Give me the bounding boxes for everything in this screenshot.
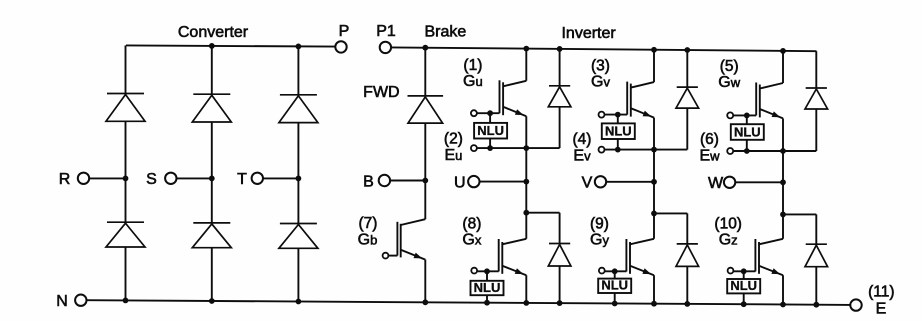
junction - node R on converter leg 1: [123, 176, 129, 182]
wire - NLU link gate to aux emitter (upper): [617, 115, 619, 150]
svg-text:Ew: Ew: [699, 148, 720, 165]
wire - mid node to lower diode: [526, 212, 559, 214]
wire - aux emitter line: [477, 147, 560, 149]
diode upper free-wheel (V phase): [686, 50, 688, 87]
diode upper free-wheel (W phase): [815, 51, 817, 88]
wire - mid node to lower diode: [654, 212, 687, 214]
block NLU (upper U phase): [474, 123, 507, 139]
wire - upper collector (V phase): [653, 50, 655, 82]
diode D2H converter upper arm: [193, 93, 230, 95]
wire - converter leg 1 lower (diode D1L to N rail): [125, 247, 127, 300]
svg-text:(2): (2): [444, 130, 463, 147]
terminal R: [78, 173, 89, 184]
transistor lower IGBT Gx: [525, 213, 527, 239]
svg-text:(11): (11): [868, 284, 894, 301]
svg-text:Gu: Gu: [463, 73, 483, 90]
junction - node W on phase leg: [780, 179, 786, 185]
svg-text:(10): (10): [714, 216, 742, 233]
svg-text:Gv: Gv: [591, 74, 610, 91]
terminal P: [335, 41, 346, 52]
svg-text:P1: P1: [376, 23, 396, 40]
svg-text:NLU: NLU: [605, 124, 632, 139]
svg-text:T: T: [237, 171, 247, 188]
wire - brake emitter to N rail: [424, 260, 426, 303]
terminal gate Gb: [383, 253, 389, 259]
transistor lower IGBT Gy: [653, 213, 655, 238]
transistor lower IGBT Gz: [782, 214, 784, 238]
wire - V stub to phase leg: [606, 181, 654, 183]
junction - node T on converter leg 3: [296, 176, 302, 182]
junction - lower diode on N rail: [813, 302, 819, 308]
wire - lower gate lead: [734, 270, 756, 272]
terminal B: [379, 175, 390, 186]
terminal S: [165, 173, 176, 184]
diode D1H converter upper arm: [107, 93, 144, 95]
junction - node S on converter leg 2: [209, 176, 215, 182]
terminal T: [252, 173, 263, 184]
terminal W: [724, 177, 735, 188]
transistor upper IGBT Gw: [760, 83, 783, 89]
junction - node V lower (collector of lower IGBT): [651, 211, 657, 217]
wire - converter leg 3 upper (P rail to diode D3H): [297, 46, 299, 94]
svg-text:P: P: [339, 23, 350, 40]
junction - gate to NLU tap (upper): [615, 112, 621, 118]
svg-text:Inverter: Inverter: [561, 25, 616, 42]
block NLU (lower W phase): [727, 279, 760, 293]
junction - gate to NLU tap (upper): [744, 113, 750, 119]
svg-text:V: V: [582, 175, 593, 192]
diode lower free-wheel (V phase): [686, 213, 688, 244]
wire - W stub to phase leg: [735, 181, 783, 183]
transistor upper IGBT Gv: [631, 82, 654, 88]
wire - NLU link gate to aux emitter (upper): [746, 115, 748, 151]
terminal U: [468, 176, 479, 187]
diode lower free-wheel (W phase): [815, 214, 817, 244]
terminal P1: [380, 42, 391, 53]
junction - gate to NLU tap (upper): [487, 110, 493, 116]
wire - converter leg 2 upper (P rail to diode D2H): [211, 46, 213, 94]
diode FWD free-wheel: [408, 95, 444, 97]
svg-text:R: R: [59, 171, 71, 188]
block NLU (upper W phase): [731, 124, 764, 140]
wire - U stub to phase leg: [479, 181, 526, 183]
diode lower free-wheel (U phase): [559, 213, 561, 244]
wire - aux emitter line: [733, 150, 816, 152]
junction - converter leg 1 on N rail: [123, 298, 129, 304]
terminal V: [595, 176, 606, 187]
terminal gate (lower): [728, 268, 734, 274]
wire - R stub to converter leg 1: [89, 177, 126, 179]
junction - U upper diode on P1 rail: [557, 46, 563, 52]
junction - converter leg 3 on N rail: [296, 299, 302, 305]
block NLU (upper V phase): [602, 123, 635, 139]
wire - upper gate lead: [477, 112, 500, 114]
terminal gate (upper): [727, 112, 733, 118]
wire - lower emitter to N rail: [782, 275, 784, 304]
junction - node W lower (collector of lower IGBT): [780, 212, 786, 218]
junction - converter leg S on P rail: [209, 43, 215, 49]
block NLU (lower U phase): [471, 281, 504, 295]
diode D3L converter lower arm: [280, 223, 317, 225]
junction - NLU on aux emitter line: [615, 147, 621, 153]
svg-text:(8): (8): [462, 216, 481, 233]
svg-text:Gb: Gb: [358, 232, 378, 249]
wire - NLU link gate to emitter rail (lower): [614, 271, 616, 303]
wire - aux emitter line: [605, 149, 688, 151]
junction - lower emitter on N rail: [523, 300, 529, 306]
junction - brake emitter on N rail: [422, 299, 428, 305]
terminal gate (upper): [471, 110, 477, 116]
svg-text:Eu: Eu: [444, 147, 462, 164]
node N - bottom rail (DC- bus, N to E): [86, 300, 850, 305]
terminal Ev: [599, 147, 605, 153]
svg-text:NLU: NLU: [477, 123, 504, 138]
svg-text:Converter: Converter: [178, 24, 249, 41]
junction - gate to NLU tap (lower): [741, 268, 747, 274]
junction - lower diode on N rail: [557, 300, 563, 306]
wire - lower emitter to N rail: [653, 275, 655, 304]
svg-text:E: E: [876, 301, 887, 318]
svg-text:W: W: [708, 175, 724, 192]
wire - NLU link gate to emitter rail (lower): [743, 271, 745, 304]
wire - upper diode anode to aux emitter line: [559, 107, 561, 148]
svg-text:(5): (5): [720, 58, 739, 75]
svg-text:FWD: FWD: [363, 84, 399, 101]
wire - FWD diode anode to node B: [424, 123, 426, 180]
svg-text:(6): (6): [700, 131, 719, 148]
terminal Ew: [727, 148, 733, 154]
wire - NLU link gate to aux emitter (upper): [489, 113, 491, 148]
transistor upper IGBT Gu: [503, 81, 526, 87]
junction - lower diode on N rail: [684, 301, 690, 307]
wire - Gb gate lead: [388, 255, 397, 257]
svg-text:(9): (9): [590, 216, 609, 233]
svg-text:B: B: [363, 173, 374, 190]
wire - converter leg 2 lower (diode D2L to N rail): [211, 248, 213, 301]
junction - lower emitter on N rail: [651, 301, 657, 307]
svg-text:NLU: NLU: [730, 278, 757, 293]
junction - gate to NLU tap (lower): [484, 268, 490, 274]
diode D2L converter lower arm: [193, 222, 230, 224]
svg-text:NLU: NLU: [734, 124, 761, 139]
node P - converter top rail (DC+ bus): [126, 45, 336, 46]
wire - NLU link gate to emitter rail (lower): [486, 271, 488, 302]
wire - converter leg 1 middle (diode D1H to diode D1L): [125, 121, 127, 222]
wire - S stub to converter leg 2: [176, 177, 212, 179]
junction - aux emitter on emitter wire: [651, 147, 657, 153]
node P1 - inverter top rail (P1 to W-phase diode): [391, 47, 817, 51]
wire - B stub to brake leg: [390, 180, 426, 182]
svg-text:S: S: [146, 171, 157, 188]
terminal Eu: [471, 145, 477, 151]
wire - upper diode anode to aux emitter line: [815, 109, 817, 151]
wire - converter leg 2 middle (diode D2H to diode D2L): [211, 122, 213, 223]
junction - V upper collector on P1 rail: [651, 47, 657, 53]
svg-text:N: N: [56, 293, 68, 310]
svg-text:NLU: NLU: [474, 280, 501, 295]
junction - converter leg 2 on N rail: [209, 298, 215, 304]
junction - NLU on N rail: [484, 300, 490, 306]
junction - NLU on aux emitter line: [744, 148, 750, 154]
wire - mid node to lower diode: [783, 213, 816, 215]
block NLU (lower V phase): [598, 279, 631, 293]
junction - gate to NLU tap (lower): [612, 268, 618, 274]
diode D1L converter lower arm: [107, 221, 144, 223]
diode upper free-wheel (U phase): [559, 49, 561, 86]
wire - brake leg (P1 rail to FWD diode): [424, 48, 426, 96]
terminal N: [75, 295, 86, 306]
wire - upper emitter down to node U: [525, 116, 527, 213]
junction - node U lower (collector of lower IGBT): [523, 210, 529, 216]
terminal gate (lower): [471, 268, 477, 274]
svg-text:Gx: Gx: [462, 232, 481, 249]
junction - node U on phase leg: [523, 179, 529, 185]
wire - converter leg 3 middle (diode D3H to diode D3L): [297, 123, 299, 224]
junction - NLU on N rail: [612, 301, 618, 307]
svg-text:NLU: NLU: [601, 278, 628, 293]
junction - NLU on N rail: [741, 301, 747, 307]
wire - upper collector (W phase): [782, 51, 784, 83]
terminal gate (upper): [599, 112, 605, 118]
terminal gate (lower): [599, 268, 605, 274]
svg-text:(3): (3): [591, 58, 610, 75]
wire - converter leg 3 lower (diode D3L to N rail): [297, 248, 299, 301]
wire - converter leg 1 upper (P rail to diode D1H): [125, 45, 127, 93]
wire - lower emitter to N rail: [525, 275, 527, 303]
junction - node V on phase leg: [651, 179, 657, 185]
wire - upper collector (U phase): [525, 49, 527, 81]
svg-text:Brake: Brake: [425, 24, 467, 41]
junction - V upper diode on P1 rail: [684, 47, 690, 53]
svg-text:(1): (1): [463, 57, 482, 74]
transistor Q7 brake IGBT Gb: [424, 181, 426, 220]
wire - lower gate lead: [477, 270, 499, 272]
diode D3H converter upper arm: [280, 94, 317, 96]
wire - upper gate lead: [605, 114, 628, 116]
svg-text:Ev: Ev: [573, 148, 591, 165]
wire - T stub to converter leg 3: [263, 177, 299, 179]
terminal E: [850, 299, 861, 310]
wire - upper gate lead: [733, 114, 756, 116]
svg-text:U: U: [454, 174, 466, 191]
wire - upper emitter down to node V: [653, 118, 655, 214]
junction - aux emitter on emitter wire: [780, 148, 786, 154]
junction - U upper collector on P1 rail: [523, 46, 529, 52]
wire - upper diode anode to aux emitter line: [686, 108, 688, 149]
wire - lower gate lead: [605, 270, 627, 272]
svg-text:(4): (4): [573, 131, 592, 148]
svg-text:Gw: Gw: [718, 74, 740, 91]
junction - NLU on aux emitter line: [487, 145, 493, 151]
junction - node B on brake leg: [422, 178, 428, 184]
wire - upper emitter down to node W: [782, 118, 784, 214]
svg-text:Gy: Gy: [590, 232, 609, 249]
junction - aux emitter on emitter wire: [523, 145, 529, 151]
junction - W upper collector on P1 rail: [780, 48, 786, 54]
junction - lower emitter on N rail: [780, 302, 786, 308]
svg-text:(7): (7): [359, 215, 378, 232]
junction - converter leg T on P rail: [296, 44, 302, 50]
junction - brake leg on P1 rail: [422, 45, 428, 51]
svg-text:Gz: Gz: [719, 232, 738, 249]
